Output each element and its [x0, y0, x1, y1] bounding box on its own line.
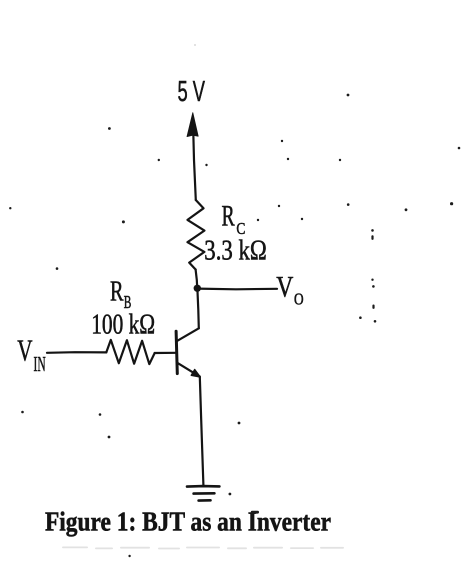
transistor Q1 emitter arrow head: [191, 370, 200, 378]
wire: VIN to RB: [47, 351, 106, 354]
wire: emitter to ground: [200, 377, 204, 486]
transistor Q1 collector lead: [177, 328, 199, 341]
wire: output node down to collector: [197, 289, 198, 328]
wire: output node to VO label: [197, 288, 277, 291]
resistor RB zigzag: [106, 340, 154, 364]
svg-text:O: O: [294, 289, 304, 308]
svg-text:3.3 kΩ: 3.3 kΩ: [204, 236, 266, 267]
wire: RB to base: [155, 352, 176, 354]
resistor RC zigzag: [188, 200, 205, 270]
svg-text:IN: IN: [34, 352, 46, 376]
wire: supply arrow shaft: [193, 117, 196, 200]
svg-text:100 kΩ: 100 kΩ: [91, 310, 155, 341]
svg-text:V: V: [276, 272, 293, 304]
svg-text:V: V: [17, 334, 32, 368]
node: collector output junction: [194, 285, 201, 292]
supply arrow head: [187, 113, 198, 137]
svg-text:R: R: [222, 200, 235, 233]
ground symbol: [187, 486, 219, 501]
transistor Q1 base bar: [176, 331, 177, 373]
svg-text:Figure 1: BJT as an Inverter: Figure 1: BJT as an Inverter: [45, 506, 331, 536]
svg-text:R: R: [110, 276, 124, 307]
transistor Q1 emitter lead: [177, 363, 199, 377]
wire: RC bottom to output node: [196, 270, 198, 288]
svg-text:5 V: 5 V: [178, 75, 206, 107]
